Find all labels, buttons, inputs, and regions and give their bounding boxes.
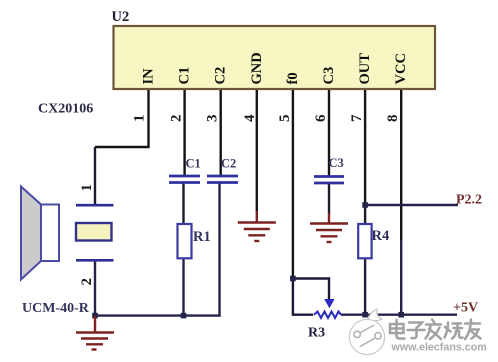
svg-text:C3: C3 <box>321 67 337 85</box>
svg-text:7: 7 <box>349 114 365 122</box>
svg-text:CX20106: CX20106 <box>38 102 93 117</box>
svg-text:C1: C1 <box>186 157 201 171</box>
svg-text:5: 5 <box>277 115 293 123</box>
svg-text:UCM-40-R: UCM-40-R <box>22 301 90 316</box>
svg-text:+5V: +5V <box>453 301 478 316</box>
svg-text:3: 3 <box>205 115 221 123</box>
svg-text:C1: C1 <box>177 67 193 85</box>
svg-text:www.elecfans.com: www.elecfans.com <box>391 342 487 354</box>
svg-text:1: 1 <box>132 115 148 123</box>
svg-text:C2: C2 <box>213 67 229 85</box>
svg-text:U2: U2 <box>112 9 130 25</box>
svg-text:8: 8 <box>385 115 401 123</box>
svg-text:VCC: VCC <box>393 53 409 84</box>
svg-text:6: 6 <box>313 114 329 122</box>
svg-text:C3: C3 <box>329 156 344 170</box>
svg-text:GND: GND <box>249 52 265 84</box>
svg-text:OUT: OUT <box>357 53 373 85</box>
svg-text:R1: R1 <box>193 229 211 245</box>
svg-text:1: 1 <box>79 184 95 192</box>
svg-text:IN: IN <box>141 68 157 85</box>
svg-text:4: 4 <box>242 114 258 122</box>
svg-text:f0: f0 <box>285 72 301 84</box>
svg-text:R4: R4 <box>372 228 390 244</box>
svg-text:2: 2 <box>79 278 95 286</box>
svg-text:2: 2 <box>169 115 185 123</box>
svg-text:R3: R3 <box>308 326 325 341</box>
svg-text:C2: C2 <box>221 157 236 171</box>
svg-text:P2.2: P2.2 <box>456 193 482 208</box>
